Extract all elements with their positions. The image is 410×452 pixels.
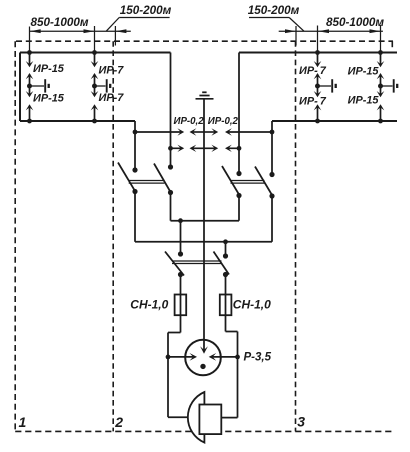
svg-text:1: 1	[19, 414, 27, 430]
svg-text:ИР-15: ИР-15	[33, 93, 65, 105]
svg-text:ИР-15: ИР-15	[348, 95, 380, 107]
extension line fourth column	[380, 25, 382, 53]
wire switch S1 bottom to line2	[134, 192, 136, 242]
switch S3 bottom terminal	[236, 193, 241, 198]
node second column top bus junction	[92, 50, 97, 55]
wire bottom feeder bus left	[20, 120, 135, 122]
mechanical linkage S3-S4	[231, 181, 265, 184]
center line arrow into device	[200, 346, 208, 354]
feeder return up arrow third column	[314, 104, 322, 121]
svg-text:3: 3	[297, 414, 305, 430]
wire lamp left feed with arrow	[168, 353, 197, 361]
value label upper second column	[99, 64, 125, 76]
label 150-200m left	[120, 4, 172, 17]
switch S1 top terminal	[132, 167, 137, 172]
node fourth column top bus junction	[378, 50, 383, 55]
svg-text:Р-3,5: Р-3,5	[244, 352, 272, 364]
node lamp left junction	[166, 355, 171, 360]
wire right riser from bottom bus to switch S4	[271, 121, 273, 175]
dimension arrow right 850 left tip	[318, 29, 329, 33]
extension line third column	[317, 26, 319, 53]
wire tap from line1 down to switch S5	[180, 221, 182, 254]
svg-text:ИР-: ИР-	[299, 65, 318, 77]
wire left riser from bottom bus to switch S1	[134, 121, 136, 170]
wire switch S6 bottom through fuse to corner	[225, 275, 227, 332]
label 850-1000m right	[326, 16, 384, 29]
value label lower first column	[33, 93, 65, 105]
dimension arrow left tip at left column	[30, 29, 41, 33]
feeder return up arrow first column	[26, 104, 34, 121]
device P-3,5 circle	[185, 340, 221, 376]
subscriber cell symbol first column	[30, 79, 49, 92]
value label SN-1,0 right	[233, 298, 271, 312]
wire left bus end vertical	[19, 53, 21, 122]
wire tap from line2 down to switch S6	[225, 242, 227, 256]
switch S3 blade	[222, 166, 239, 195]
dimension line 850-1000m left	[30, 30, 131, 32]
distribution double arrow third column	[314, 73, 322, 97]
label 150-200m right	[248, 4, 300, 17]
subscriber cell symbol fourth column	[381, 79, 398, 92]
svg-text:850-1000м: 850-1000м	[326, 16, 384, 29]
switch S6 top terminal	[223, 253, 228, 258]
switch S5 top terminal	[178, 251, 183, 256]
dashed boundary frame bottom edge	[15, 430, 393, 432]
value label upper fourth column	[348, 66, 380, 78]
svg-text:150-200м: 150-200м	[248, 4, 300, 17]
node third column bottom bus junction	[315, 119, 320, 124]
value label upper first column	[33, 63, 65, 75]
value label lower fourth column	[348, 95, 380, 107]
subscriber cell symbol second column	[95, 79, 111, 92]
node line2 tap junction	[223, 239, 228, 244]
extension line at 150-200m right boundary	[114, 26, 116, 46]
wire left inner vertical from top bus to switch S2	[170, 53, 172, 168]
wire bottom feeder bus right	[272, 120, 397, 122]
loudspeaker horn	[188, 392, 205, 443]
svg-text:7: 7	[320, 96, 327, 108]
value label IR-7 upper third column	[299, 65, 327, 77]
switch S6 bottom terminal	[223, 272, 228, 277]
switch S6 blade	[214, 252, 230, 275]
distribution double arrow fourth column	[377, 73, 385, 97]
wire lamp right feed with arrow	[209, 353, 238, 361]
wire line2 horizontal	[135, 241, 272, 243]
value label SN-1,0 left	[130, 298, 168, 312]
zone label 2	[114, 414, 123, 430]
svg-text:ИР-15: ИР-15	[348, 66, 380, 78]
node first column top bus junction	[27, 50, 32, 55]
wire top feeder bus left	[20, 52, 171, 54]
feeder tap down arrow third column	[314, 53, 322, 68]
svg-text:ИР-15: ИР-15	[33, 63, 65, 75]
dashed section divider between zones 2 and 3	[295, 41, 297, 431]
node right riser row1 junction	[270, 130, 275, 135]
node fourth column bottom bus junction	[378, 119, 383, 124]
feeder return up arrow second column	[91, 104, 99, 121]
leader shelf for left 150-200m label	[119, 17, 169, 19]
svg-text:СН-1,0: СН-1,0	[233, 298, 271, 312]
leader diagonal for right 150-200m label	[289, 18, 304, 32]
switch S3 top terminal	[236, 171, 241, 176]
fuse SN-1,0 right body	[220, 295, 232, 316]
switch S5 bottom terminal	[178, 272, 183, 277]
wire left riser down to loudspeaker	[168, 357, 191, 417]
wire line1 horizontal	[171, 220, 240, 222]
device center dot	[200, 364, 205, 369]
svg-text:ИР-7: ИР-7	[99, 92, 125, 104]
subscriber cell symbol third column	[318, 79, 336, 92]
dimension line 150-200m and 850-1000m right	[279, 30, 383, 32]
distribution double arrow second column	[91, 73, 99, 97]
node first column bottom bus junction	[27, 119, 32, 124]
ground symbol above center line	[196, 92, 214, 99]
switch S4 top terminal	[269, 172, 274, 177]
wire right corner to lamp riser	[226, 332, 238, 357]
node third column top bus junction	[315, 50, 320, 55]
wire right inner vertical from top bus to switch S3	[238, 53, 240, 174]
dashed section divider between zones 1 and 2	[112, 41, 114, 431]
dimension arrow right 850 right tip	[370, 29, 381, 33]
node lamp right junction	[235, 355, 240, 360]
switch S4 bottom terminal	[269, 193, 274, 198]
svg-text:ИР-7: ИР-7	[99, 64, 125, 76]
node second column bottom bus junction	[92, 119, 97, 124]
dimension arrow 150-200m outside-right	[115, 29, 126, 33]
extension line at 150-200m left boundary right side	[295, 26, 297, 46]
label IR-0,2 left	[174, 116, 205, 127]
svg-text:7: 7	[320, 65, 327, 77]
switch S5 blade	[165, 252, 184, 276]
value label lower second column	[99, 92, 125, 104]
dashed boundary frame right edge stub	[391, 41, 393, 49]
svg-text:ИР-0,2: ИР-0,2	[174, 116, 205, 127]
zone label 3	[297, 414, 305, 430]
svg-text:150-200м: 150-200м	[120, 4, 172, 17]
wire switch S2 bottom to line1	[170, 193, 172, 221]
svg-text:ИР-0,2: ИР-0,2	[208, 116, 239, 127]
svg-text:ИР-: ИР-	[299, 96, 318, 108]
wire switch S3 bottom to line1	[238, 195, 240, 221]
switch S4 blade	[255, 167, 272, 196]
loudspeaker body	[199, 405, 221, 435]
switch S1 blade	[118, 163, 135, 192]
wire row2 with opposing arrows (feeder crossover lower)	[171, 145, 240, 152]
node line1 tap junction	[178, 218, 183, 223]
leader diagonal for left 150-200m label	[106, 18, 119, 32]
svg-text:850-1000м: 850-1000м	[30, 16, 88, 29]
wire center line from ground to amplifier	[203, 99, 205, 352]
feeder tap down arrow second column	[91, 53, 99, 68]
switch S2 blade	[154, 164, 171, 193]
mechanical linkage S5-S6	[172, 261, 222, 264]
node left inner vertical row2 junction	[168, 146, 173, 151]
feeder tap down arrow first column	[26, 53, 34, 68]
dashed boundary frame left edge	[14, 41, 16, 431]
node right inner vertical row2 junction	[237, 146, 242, 151]
svg-text:2: 2	[114, 414, 123, 430]
dimension arrow 150-200m outside-left	[285, 29, 296, 33]
switch S2 bottom terminal	[168, 190, 173, 195]
label 850-1000m left	[30, 16, 88, 29]
feeder tap down arrow fourth column	[377, 53, 385, 68]
switch S1 bottom terminal	[132, 189, 137, 194]
distribution double arrow first column	[26, 73, 34, 97]
leader shelf for right 150-200m label	[249, 17, 289, 19]
extension line second column	[94, 26, 96, 53]
label IR-0,2 right	[208, 116, 239, 127]
wire switch S5 bottom through fuse to corner	[180, 275, 182, 333]
dashed boundary frame top edge	[16, 40, 393, 42]
dimension arrow right tip at second column	[84, 29, 95, 33]
extension line first column	[29, 27, 31, 53]
feeder return up arrow fourth column	[377, 104, 385, 121]
value label IR-7 lower third column	[299, 96, 327, 108]
switch S2 top terminal	[168, 164, 173, 169]
fuse SN-1,0 left body	[175, 295, 187, 316]
mechanical linkage S1-S2	[129, 181, 165, 184]
wire left corner to lamp riser	[168, 333, 181, 357]
svg-text:СН-1,0: СН-1,0	[130, 298, 168, 312]
wire switch S4 bottom to line2	[271, 196, 273, 242]
zone label 1	[19, 414, 27, 430]
value label P-3,5	[244, 352, 272, 364]
wire row1 with opposing arrows (feeder crossover upper)	[135, 128, 272, 135]
wire top feeder bus right	[239, 52, 397, 54]
wire right riser down to loudspeaker	[222, 357, 238, 418]
node left riser row1 junction	[133, 130, 138, 135]
